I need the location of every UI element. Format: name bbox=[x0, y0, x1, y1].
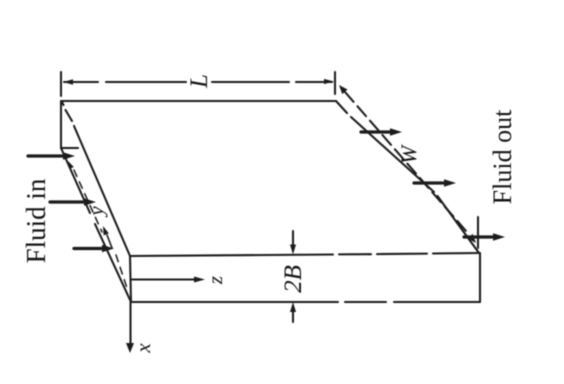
svg-text:W: W bbox=[396, 144, 421, 164]
fluid out arrow 1 bbox=[361, 130, 390, 133]
slab left top slant edge bbox=[62, 102, 130, 256]
inlet face dash-dot centerline arrowhead bbox=[68, 161, 74, 169]
fluid in arrow 1 bbox=[28, 154, 63, 157]
fluid out arrow 2 bbox=[414, 181, 443, 184]
slab left end tick bbox=[61, 147, 78, 149]
svg-text:y: y bbox=[84, 206, 108, 218]
dimension 2B top arrow bbox=[292, 231, 294, 247]
axis y arrow bbox=[107, 235, 112, 248]
dimension W dash-dot line bbox=[345, 92, 466, 231]
dimension W bottom arrowhead bbox=[468, 234, 477, 243]
dimension L left tick bbox=[60, 72, 62, 96]
svg-text:Fluid in: Fluid in bbox=[21, 178, 51, 263]
svg-text:L: L bbox=[186, 74, 213, 89]
fluid in arrow 2 bbox=[50, 200, 84, 203]
slab top back edge bbox=[61, 100, 336, 102]
svg-text:2B: 2B bbox=[280, 265, 307, 293]
svg-text:z: z bbox=[203, 276, 227, 285]
slab left back vertical edge bbox=[60, 101, 62, 148]
dimension W top arrowhead bbox=[339, 85, 348, 94]
svg-text:x: x bbox=[131, 343, 155, 354]
axis z arrow bbox=[132, 278, 197, 280]
dimension L line bbox=[64, 81, 332, 83]
slab front right edge bbox=[479, 253, 481, 302]
dimension L right arrowhead bbox=[324, 79, 334, 84]
svg-text:Fluid out: Fluid out bbox=[488, 109, 517, 204]
fluid in arrow 3 bbox=[74, 247, 103, 250]
inlet face dash-dot centerline bbox=[74, 170, 102, 232]
slab right slant edge bbox=[336, 101, 479, 253]
fluid out arrow 3 bbox=[464, 235, 492, 238]
slab left bottom slant edge bbox=[61, 148, 131, 302]
slab front left edge bbox=[130, 256, 131, 302]
dimension 2B bottom arrow bbox=[292, 308, 294, 322]
dimension W bottom tick bbox=[477, 217, 479, 248]
dimension L right tick bbox=[334, 72, 336, 94]
slab front top edge bbox=[130, 253, 479, 256]
axis x arrow bbox=[129, 302, 131, 347]
dimension L left arrowhead bbox=[63, 79, 73, 84]
slab front bottom edge bbox=[131, 301, 480, 303]
